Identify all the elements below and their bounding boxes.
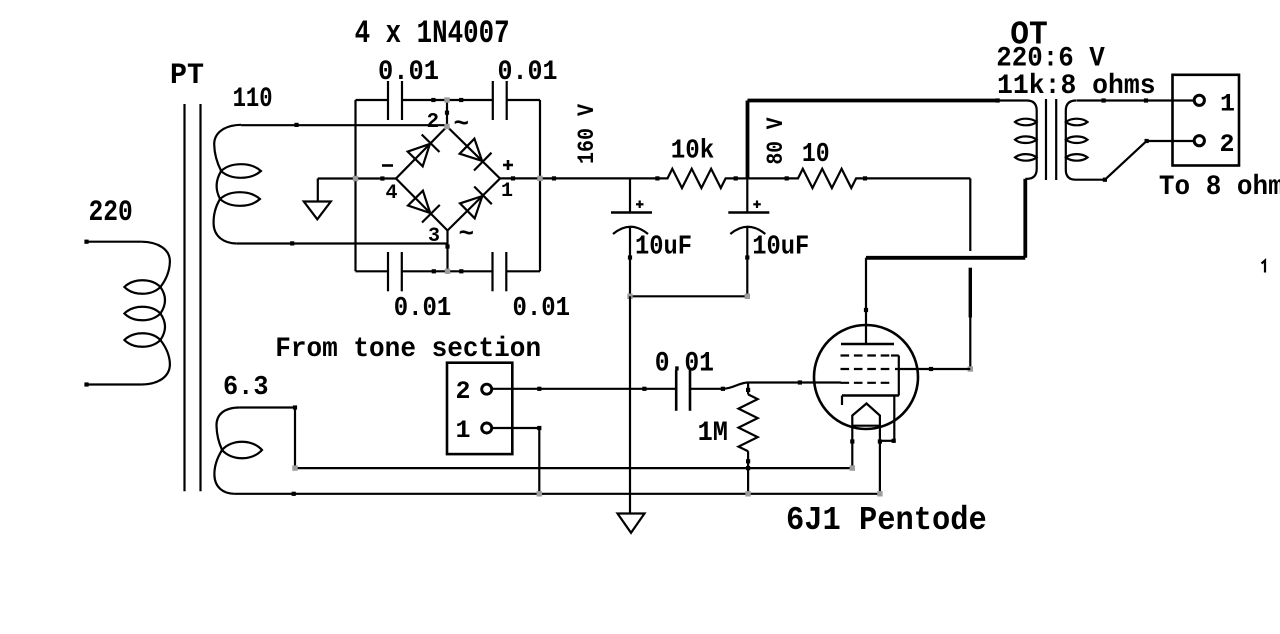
svg-text:1: 1: [501, 180, 513, 203]
svg-text:160 V: 160 V: [574, 104, 600, 164]
ground symbol at bridge: [304, 202, 331, 220]
bridge box bottom edge: [356, 269, 541, 273]
svg-text:2: 2: [427, 111, 440, 134]
wire thick OT to plate: [866, 256, 1025, 260]
svg-text:~: ~: [459, 219, 475, 249]
label jack 1: [1220, 90, 1235, 119]
label 220:6 V: [996, 44, 1105, 75]
tone terminal 1: [482, 423, 492, 433]
screen wire corner junction: [968, 366, 973, 371]
svg-text:PT: PT: [170, 59, 204, 93]
wire 10 to corner: [865, 177, 970, 179]
capacitor C2 10uF: [728, 201, 769, 297]
bridge box left edge: [354, 100, 356, 271]
tube 6J1 envelope: [814, 325, 918, 429]
capacitor 0.01 coupling: [676, 370, 690, 411]
svg-text:0.01: 0.01: [655, 348, 714, 379]
label bridge plus: [503, 160, 513, 170]
svg-text:10uF: 10uF: [635, 232, 692, 262]
svg-text:0.01: 0.01: [378, 57, 439, 88]
transformer PT core: [185, 104, 201, 491]
bridge left junction: [353, 176, 358, 181]
label 160 V: [574, 104, 600, 164]
label jack 2: [1220, 130, 1235, 159]
label 10k: [671, 136, 715, 166]
wire OT secondary top to jack: [1077, 98, 1195, 102]
svg-text:6.3: 6.3: [223, 373, 269, 403]
resistor 1M: [738, 383, 757, 494]
capacitor 0.01 bottom-right: [493, 252, 571, 324]
svg-text:~: ~: [454, 109, 470, 139]
bridge box right edge: [539, 100, 541, 271]
wire 110 bottom lead to bridge node 3: [237, 241, 448, 245]
svg-text:0.01: 0.01: [498, 57, 558, 88]
output jack box: [1173, 75, 1240, 166]
wire node 3 stub: [445, 231, 449, 272]
svg-text:1: 1: [1220, 90, 1235, 119]
svg-text:2: 2: [1220, 130, 1235, 159]
wire 10k to junction: [736, 177, 748, 179]
capacitor 0.01 bottom-left: [388, 252, 451, 324]
tube cathode: [842, 396, 899, 406]
node 2 junction: [444, 97, 449, 129]
diode D4 (node 3 to node 1): [460, 187, 492, 219]
capacitor C2 10uF lead: [746, 178, 748, 212]
label bridge pin 4: [386, 182, 398, 205]
svg-text:4 x 1N4007: 4 x 1N4007: [355, 15, 510, 52]
label 4 x 1N4007: [355, 15, 510, 52]
label From tone section: [275, 334, 541, 365]
label 11k:8 ohms: [997, 71, 1156, 102]
capacitor C1 10uF: [611, 201, 652, 297]
wire heater pin right: [878, 426, 882, 494]
node 3 junction: [445, 269, 450, 274]
label tone 2: [456, 377, 471, 406]
wire cathode tail: [880, 396, 896, 443]
tube grid g2: [841, 368, 895, 370]
wire corner down to screen grid: [969, 178, 971, 369]
label 80 V: [763, 117, 789, 164]
winding 6.3 (PT heater secondary): [214, 408, 262, 494]
tube grid g3: [841, 354, 899, 356]
label bridge ac top: [454, 109, 470, 139]
label PT: [170, 59, 204, 93]
wire OT secondary bottom: [1077, 139, 1195, 182]
bridge box top edge: [356, 98, 541, 102]
diode D1 (node 4 to node 2): [408, 135, 440, 167]
winding 220 (PT primary): [124, 242, 170, 385]
svg-text:2: 2: [456, 377, 471, 406]
wire bridge node 4: [318, 176, 396, 180]
label 10uF C1: [635, 232, 692, 262]
wire thick OT primary drop: [1023, 179, 1027, 258]
capacitor 0.01 top-left: [378, 57, 439, 120]
wire 110 top lead to bridge node 2: [241, 123, 447, 127]
tube grid g1: [841, 382, 895, 384]
wire heater bus 1: [292, 465, 855, 470]
wire screen g2 out: [895, 367, 970, 371]
wire C1 bottom to ground: [629, 296, 631, 513]
svg-text:11k:8 ohms: 11k:8 ohms: [997, 71, 1156, 102]
wire thick B+ drop: [746, 101, 750, 179]
wire thick B+ horizontal: [748, 99, 998, 103]
stray mark right edge: [1262, 261, 1266, 273]
wire 220 top lead: [84, 240, 141, 244]
wire tone 1: [493, 426, 542, 430]
wire tone 2 to cap: [493, 387, 677, 391]
svg-text:10: 10: [802, 140, 830, 170]
svg-text:6J1 Pentode: 6J1 Pentode: [786, 502, 987, 539]
label 6.3: [223, 373, 269, 403]
winding OT secondary: [1066, 101, 1088, 180]
svg-text:1: 1: [456, 416, 471, 445]
svg-text:1M: 1M: [698, 418, 728, 449]
capacitor 0.01 top-right: [493, 57, 558, 120]
label bridge ac bottom: [459, 219, 475, 249]
tone terminal 2: [482, 384, 492, 394]
wire anode lead: [864, 258, 868, 344]
wire node 2 stub: [445, 100, 449, 127]
label bridge minus: [382, 164, 393, 167]
resistor 10: [787, 169, 867, 188]
svg-text:80 V: 80 V: [763, 117, 789, 164]
ground symbol center: [618, 514, 645, 533]
label 0.01 coupling: [655, 348, 714, 379]
label 6J1 Pentode: [786, 502, 987, 539]
output jack terminal 1: [1194, 95, 1204, 105]
diode D3 (node 4 to node 3): [408, 191, 440, 223]
svg-text:To 8 ohms: To 8 ohms: [1159, 172, 1280, 203]
label bridge pin 3: [428, 225, 440, 248]
svg-text:220: 220: [89, 196, 133, 230]
svg-text:0.01: 0.01: [513, 294, 571, 324]
wire tone 1 drop: [538, 428, 540, 494]
svg-text:220:6 V: 220:6 V: [996, 44, 1105, 75]
resistor 10k: [657, 169, 737, 188]
tone section box: [447, 363, 512, 454]
label 10uF C2: [752, 232, 809, 262]
svg-text:From tone section: From tone section: [275, 334, 541, 365]
label OT: [1010, 17, 1048, 54]
svg-text:10uF: 10uF: [752, 232, 809, 262]
label 1M: [698, 418, 728, 449]
winding OT primary: [996, 98, 1037, 178]
wire node 1 to 10k: [500, 176, 660, 180]
transformer OT core: [1046, 99, 1056, 180]
winding 110 (PT secondary HV): [214, 125, 261, 244]
wire cap to grid: [690, 380, 841, 391]
label 220: [89, 196, 133, 230]
output jack terminal 2: [1194, 136, 1204, 146]
label tone 1: [456, 416, 471, 445]
label 10: [802, 140, 830, 170]
label bridge pin 2: [427, 111, 440, 134]
svg-text:3: 3: [428, 225, 440, 248]
ground stub at bridge: [317, 179, 319, 202]
wire cap bottoms link: [627, 294, 750, 299]
capacitor C1 10uF lead: [629, 178, 631, 212]
label bridge pin 1: [501, 180, 513, 203]
wire junction to 10: [748, 176, 789, 180]
tube heater: [852, 404, 880, 426]
svg-text:4: 4: [386, 182, 398, 205]
wire heater bus 2: [234, 491, 882, 496]
diode D2 (node 2 to node 1): [460, 139, 492, 171]
svg-text:110: 110: [233, 84, 273, 115]
wire 6.3 top lead: [239, 405, 297, 409]
label To 8 ohms: [1159, 172, 1280, 203]
wire 220 bottom lead: [84, 382, 141, 386]
bridge diamond: [396, 127, 500, 231]
label 110: [233, 84, 273, 115]
svg-text:0.01: 0.01: [394, 294, 452, 324]
tube plate: [841, 343, 894, 346]
wire g3 tie to cathode: [898, 356, 900, 396]
svg-text:10k: 10k: [671, 136, 715, 166]
wire 6.3 top lead drop: [294, 408, 296, 469]
wire heater pin left: [850, 426, 854, 468]
bridge right junction: [537, 176, 542, 181]
